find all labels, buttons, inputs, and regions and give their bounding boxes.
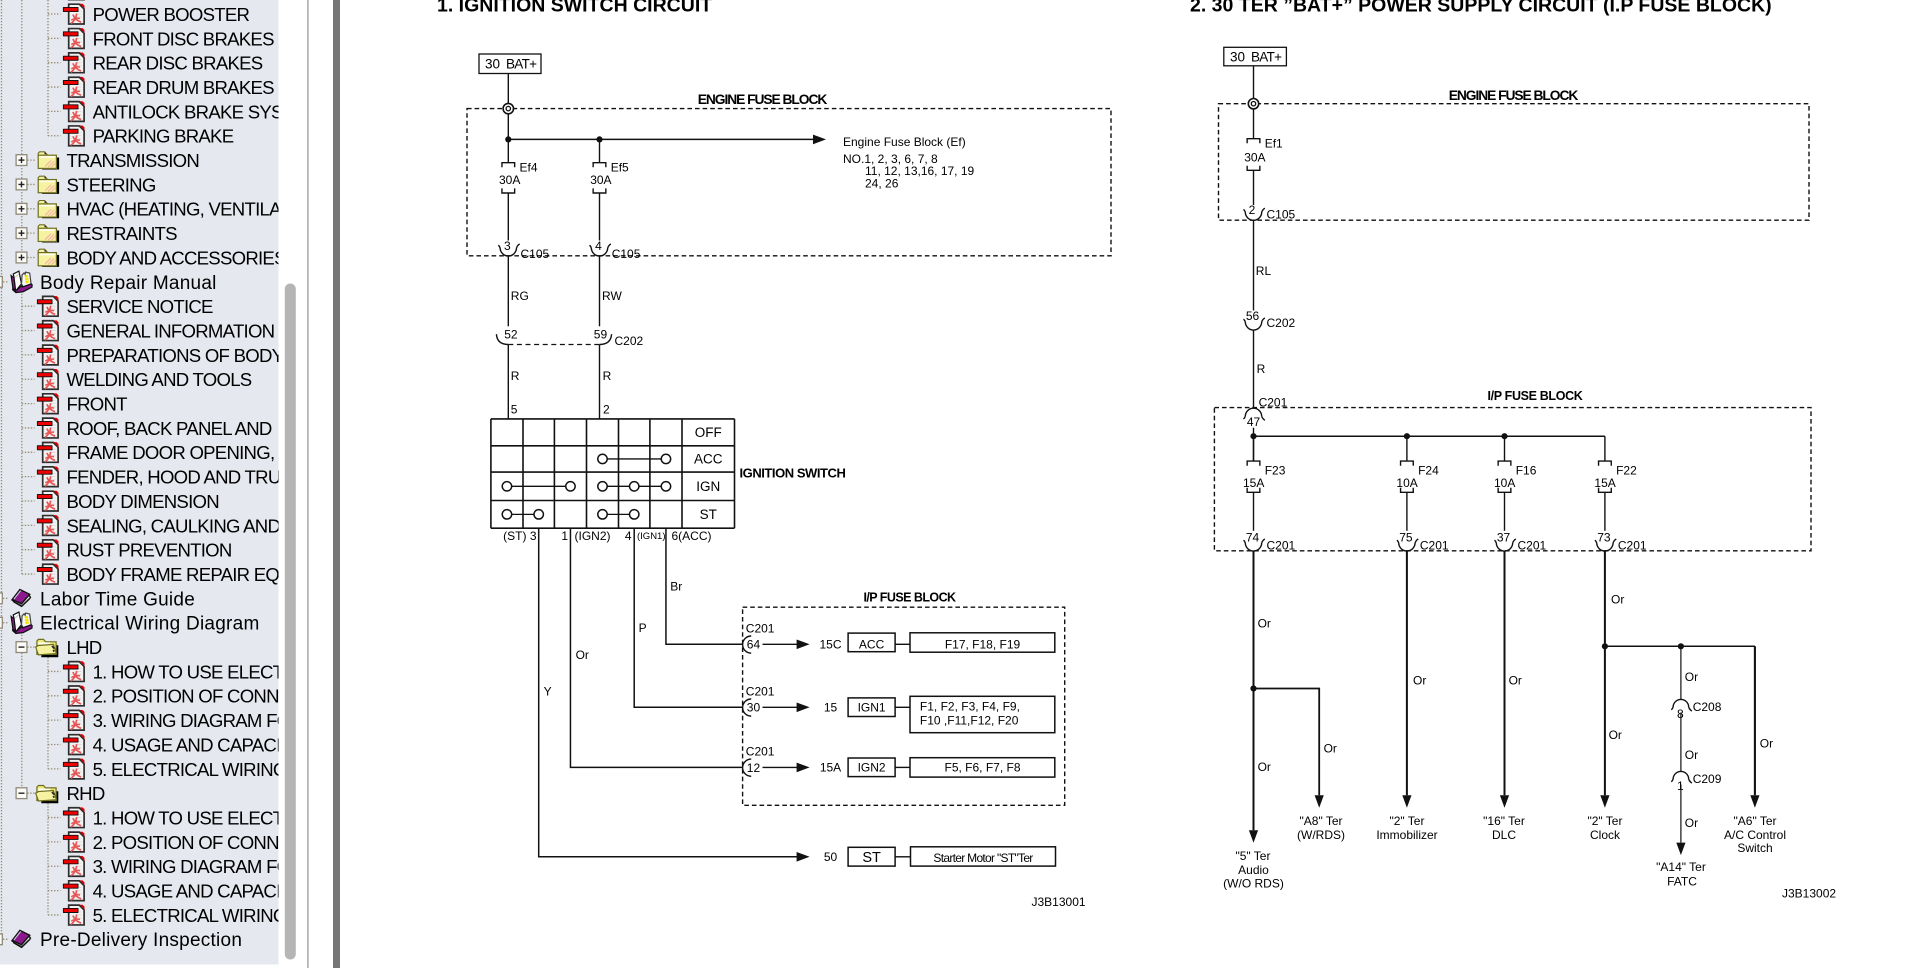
- svg-text:J3B13001: J3B13001: [1032, 895, 1086, 909]
- svg-text:C105: C105: [521, 247, 550, 261]
- svg-text:RESTRAINTS: RESTRAINTS: [67, 223, 178, 244]
- svg-text:BAT+: BAT+: [506, 57, 537, 72]
- svg-text:C105: C105: [612, 247, 641, 261]
- svg-text:FENDER, HOOD AND TRUNK: FENDER, HOOD AND TRUNK: [67, 467, 307, 488]
- svg-text:6(ACC): 6(ACC): [672, 529, 712, 543]
- svg-text:C209: C209: [1693, 772, 1722, 786]
- svg-text:Pre-Delivery Inspection: Pre-Delivery Inspection: [40, 930, 242, 951]
- svg-text:2. POSITION OF CONNECTORS: 2. POSITION OF CONNECTORS: [93, 832, 352, 853]
- svg-text:J3B13002: J3B13002: [1782, 886, 1836, 900]
- svg-text:C201: C201: [746, 622, 775, 636]
- svg-text:BAT+: BAT+: [1251, 50, 1282, 65]
- svg-text:RHD: RHD: [67, 783, 105, 804]
- svg-text:(IGN2): (IGN2): [575, 529, 611, 543]
- svg-text:IGNITION SWITCH: IGNITION SWITCH: [740, 466, 846, 481]
- svg-text:F17, F18, F19: F17, F18, F19: [945, 638, 1021, 652]
- svg-text:1. IGNITION SWITCH CIRCUIT: 1. IGNITION SWITCH CIRCUIT: [437, 0, 712, 17]
- svg-text:Ef1: Ef1: [1265, 137, 1283, 151]
- svg-text:37: 37: [1497, 531, 1511, 545]
- svg-text:REAR DISC BRAKES: REAR DISC BRAKES: [93, 53, 263, 74]
- svg-text:C201: C201: [1518, 538, 1547, 552]
- svg-text:RL: RL: [1256, 264, 1272, 278]
- svg-text:56: 56: [1246, 309, 1260, 323]
- svg-text:F24: F24: [1418, 464, 1439, 478]
- svg-text:ROOF, BACK PANEL AND: ROOF, BACK PANEL AND: [67, 418, 272, 439]
- svg-text:Or: Or: [1685, 816, 1698, 830]
- svg-text:Or: Or: [1413, 673, 1426, 687]
- svg-text:F1, F2, F3, F4, F9,: F1, F2, F3, F4, F9,: [920, 700, 1020, 714]
- svg-text:Or: Or: [1685, 748, 1698, 762]
- svg-text:ST: ST: [700, 507, 717, 522]
- svg-text:C201: C201: [1618, 538, 1647, 552]
- svg-text:ST: ST: [862, 850, 881, 866]
- svg-text:F5, F6, F7, F8: F5, F6, F7, F8: [944, 761, 1020, 775]
- svg-text:"A14" Ter: "A14" Ter: [1656, 860, 1706, 874]
- svg-text:Switch: Switch: [1737, 841, 1772, 855]
- svg-text:59: 59: [594, 328, 608, 342]
- svg-text:ENGINE FUSE BLOCK: ENGINE FUSE BLOCK: [1449, 88, 1579, 103]
- svg-text:SERVICE NOTICE: SERVICE NOTICE: [67, 296, 214, 317]
- svg-text:15C: 15C: [819, 638, 841, 652]
- svg-text:OFF: OFF: [695, 425, 722, 440]
- svg-text:F23: F23: [1265, 464, 1286, 478]
- svg-text:TRANSMISSION: TRANSMISSION: [67, 150, 200, 171]
- svg-text:30A: 30A: [590, 173, 611, 187]
- svg-text:4. USAGE AND CAPACITY: 4. USAGE AND CAPACITY: [93, 734, 304, 755]
- svg-text:"16" Ter: "16" Ter: [1483, 814, 1525, 828]
- svg-text:"A8" Ter: "A8" Ter: [1300, 814, 1343, 828]
- svg-text:Or: Or: [1685, 670, 1698, 684]
- svg-text:Or: Or: [576, 648, 589, 662]
- svg-text:(ST) 3: (ST) 3: [503, 529, 537, 543]
- svg-text:Y: Y: [544, 685, 552, 699]
- svg-text:IGN1: IGN1: [858, 701, 886, 715]
- svg-text:2. 30 TER ”BAT+” POWER SUPPLY: 2. 30 TER ”BAT+” POWER SUPPLY CIRCUIT (I…: [1190, 0, 1772, 17]
- svg-text:30: 30: [1230, 50, 1245, 65]
- svg-text:C201: C201: [1267, 538, 1296, 552]
- svg-text:IGN2: IGN2: [858, 761, 886, 775]
- svg-text:ACC: ACC: [859, 638, 885, 652]
- svg-text:BODY DIMENSION: BODY DIMENSION: [67, 491, 219, 512]
- svg-text:10A: 10A: [1396, 476, 1417, 490]
- svg-text:Ef4: Ef4: [520, 160, 538, 174]
- svg-text:4: 4: [595, 239, 602, 253]
- svg-text:(W/RDS): (W/RDS): [1297, 828, 1345, 842]
- svg-text:C208: C208: [1693, 700, 1722, 714]
- svg-text:FRONT: FRONT: [67, 394, 128, 415]
- svg-text:FATC: FATC: [1667, 874, 1697, 888]
- svg-text:C202: C202: [1267, 316, 1296, 330]
- svg-text:74: 74: [1246, 531, 1260, 545]
- svg-text:Audio: Audio: [1238, 863, 1269, 877]
- svg-text:(IGN1): (IGN1): [637, 531, 666, 542]
- svg-text:5. ELECTRICAL WIRING DIAGRAM: 5. ELECTRICAL WIRING DIAGRAM: [93, 905, 373, 926]
- svg-text:2: 2: [1249, 203, 1256, 217]
- svg-text:30: 30: [485, 57, 500, 72]
- svg-text:I/P FUSE BLOCK: I/P FUSE BLOCK: [863, 590, 956, 604]
- svg-text:Or: Or: [1509, 673, 1522, 687]
- svg-text:52: 52: [504, 328, 518, 342]
- svg-text:POWER BOOSTER: POWER BOOSTER: [93, 4, 250, 25]
- svg-text:Or: Or: [1258, 760, 1271, 774]
- svg-text:Br: Br: [670, 579, 682, 593]
- svg-text:3: 3: [504, 239, 511, 253]
- svg-text:SEALING, CAULKING AND: SEALING, CAULKING AND: [67, 515, 281, 536]
- svg-text:R: R: [603, 369, 612, 383]
- svg-text:PREPARATIONS OF BODY: PREPARATIONS OF BODY: [67, 345, 284, 366]
- svg-text:ENGINE FUSE BLOCK: ENGINE FUSE BLOCK: [698, 92, 828, 107]
- svg-text:WELDING AND TOOLS: WELDING AND TOOLS: [67, 369, 252, 390]
- svg-text:3. WIRING DIAGRAM FO: 3. WIRING DIAGRAM FO: [93, 856, 291, 877]
- svg-text:BODY AND ACCESSORIES: BODY AND ACCESSORIES: [67, 247, 287, 268]
- svg-text:Or: Or: [1324, 742, 1337, 756]
- svg-text:30: 30: [747, 701, 761, 715]
- svg-text:PARKING BRAKE: PARKING BRAKE: [93, 126, 234, 147]
- svg-text:15A: 15A: [1243, 476, 1264, 490]
- svg-text:10A: 10A: [1494, 476, 1515, 490]
- svg-text:3. WIRING DIAGRAM FO: 3. WIRING DIAGRAM FO: [93, 710, 291, 731]
- svg-text:RW: RW: [602, 289, 622, 303]
- svg-text:Electrical Wiring Diagram: Electrical Wiring Diagram: [40, 614, 260, 635]
- svg-text:75: 75: [1399, 531, 1413, 545]
- svg-text:Or: Or: [1258, 617, 1271, 631]
- svg-text:C105: C105: [1267, 207, 1296, 221]
- svg-text:Or: Or: [1609, 728, 1622, 742]
- svg-text:Or: Or: [1760, 737, 1773, 751]
- svg-text:30A: 30A: [499, 173, 520, 187]
- svg-text:Or: Or: [1611, 592, 1624, 606]
- svg-text:4: 4: [625, 529, 632, 543]
- svg-text:R: R: [511, 369, 520, 383]
- svg-text:C201: C201: [746, 685, 775, 699]
- svg-text:Immobilizer: Immobilizer: [1376, 828, 1437, 842]
- svg-text:47: 47: [1247, 415, 1261, 429]
- svg-text:BODY FRAME REPAIR EQUIPMENT: BODY FRAME REPAIR EQUIPMENT: [67, 564, 358, 585]
- svg-text:C201: C201: [1420, 538, 1449, 552]
- svg-text:Body Repair Manual: Body Repair Manual: [40, 273, 217, 294]
- svg-text:C201: C201: [746, 745, 775, 759]
- svg-text:15A: 15A: [1594, 476, 1615, 490]
- svg-text:12: 12: [747, 761, 761, 775]
- svg-text:"5" Ter: "5" Ter: [1236, 849, 1271, 863]
- svg-text:Engine Fuse Block (Ef): Engine Fuse Block (Ef): [843, 135, 966, 149]
- svg-text:FRONT DISC BRAKES: FRONT DISC BRAKES: [93, 28, 274, 49]
- svg-text:64: 64: [747, 638, 761, 652]
- svg-text:2: 2: [603, 403, 610, 417]
- svg-text:Clock: Clock: [1590, 828, 1621, 842]
- svg-text:RG: RG: [511, 289, 529, 303]
- svg-text:73: 73: [1597, 531, 1611, 545]
- svg-text:DLC: DLC: [1492, 828, 1516, 842]
- svg-text:1: 1: [561, 529, 568, 543]
- svg-text:C202: C202: [615, 334, 644, 348]
- svg-text:RUST PREVENTION: RUST PREVENTION: [67, 540, 232, 561]
- svg-text:LHD: LHD: [67, 637, 102, 658]
- svg-text:FRAME DOOR OPENING,: FRAME DOOR OPENING,: [67, 442, 275, 463]
- svg-text:Labor Time Guide: Labor Time Guide: [40, 589, 195, 610]
- svg-text:5. ELECTRICAL WIRING DIAGRAM: 5. ELECTRICAL WIRING DIAGRAM: [93, 759, 373, 780]
- svg-text:F22: F22: [1616, 464, 1637, 478]
- svg-text:A/C Control: A/C Control: [1724, 828, 1786, 842]
- svg-text:15: 15: [824, 701, 838, 715]
- svg-text:15A: 15A: [820, 761, 841, 775]
- svg-text:REAR DRUM BRAKES: REAR DRUM BRAKES: [93, 77, 275, 98]
- svg-text:Starter Motor "ST"Ter: Starter Motor "ST"Ter: [933, 851, 1033, 865]
- svg-text:"A6" Ter: "A6" Ter: [1734, 814, 1777, 828]
- svg-text:2. POSITION OF CONNECTORS: 2. POSITION OF CONNECTORS: [93, 686, 352, 707]
- svg-text:(W/O RDS): (W/O RDS): [1223, 876, 1284, 890]
- svg-text:"2" Ter: "2" Ter: [1588, 814, 1623, 828]
- svg-text:ACC: ACC: [694, 452, 723, 467]
- svg-text:50: 50: [824, 850, 838, 864]
- svg-text:"2" Ter: "2" Ter: [1390, 814, 1425, 828]
- svg-text:STEERING: STEERING: [67, 174, 156, 195]
- svg-text:4. USAGE AND CAPACITY: 4. USAGE AND CAPACITY: [93, 881, 304, 902]
- svg-text:P: P: [639, 621, 647, 635]
- svg-text:5: 5: [511, 403, 518, 417]
- svg-text:GENERAL INFORMATION: GENERAL INFORMATION: [67, 320, 275, 341]
- svg-text:I/P FUSE BLOCK: I/P FUSE BLOCK: [1488, 389, 1583, 403]
- svg-text:F16: F16: [1516, 464, 1537, 478]
- svg-text:IGN: IGN: [696, 479, 720, 494]
- svg-text:F10 ,F11,F12, F20: F10 ,F11,F12, F20: [920, 714, 1019, 728]
- svg-text:30A: 30A: [1244, 151, 1265, 165]
- svg-text:24, 26: 24, 26: [865, 177, 899, 191]
- svg-text:Ef5: Ef5: [611, 160, 629, 174]
- svg-text:R: R: [1257, 362, 1266, 376]
